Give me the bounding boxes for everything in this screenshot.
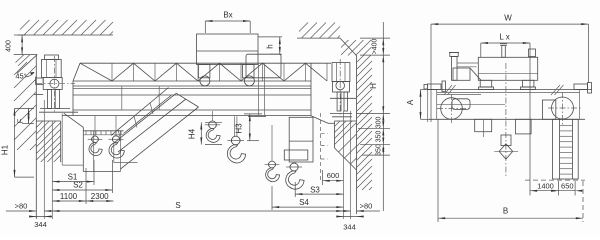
runway rail lines right: [343, 111, 345, 219]
stair railing over diagonals: [111, 88, 169, 136]
left hook big: [113, 136, 120, 143]
svg-text:>80: >80: [360, 202, 373, 211]
right hoist block hanging: [289, 117, 313, 162]
left wall face: [35, 55, 37, 219]
girder right taper: [311, 116, 328, 124]
left crane wheel: [50, 79, 59, 88]
dim H3: [244, 113, 262, 115]
under-girder walkway (oblique): [64, 113, 83, 127]
dim S3: [295, 193, 343, 195]
svg-text:S: S: [175, 201, 180, 210]
right rail web bars: [337, 92, 341, 111]
walkway railing top: [80, 62, 331, 64]
svg-text:W: W: [504, 14, 512, 23]
ev ladder: [559, 119, 561, 179]
center small hook (H4): [212, 111, 214, 121]
dashed clearance outline near right wall: [320, 113, 322, 180]
dim 400 top-left: [14, 34, 26, 36]
ev right buffer: [574, 84, 588, 90]
dim H4: [205, 121, 222, 123]
svg-text:H3: H3: [235, 123, 244, 134]
left wall hatch band: [14, 62, 27, 75]
svg-text:350: 350: [376, 144, 383, 156]
ev hook block: [505, 63, 507, 176]
right wall hatch band: [357, 56, 364, 63]
dim 2300: [86, 200, 114, 202]
ev right girder box: [553, 119, 579, 179]
dim S4: [272, 206, 344, 208]
ev trolley frame deck: [427, 89, 592, 91]
left end carriage post: [45, 55, 59, 60]
svg-text:F: F: [16, 118, 25, 123]
svg-text:S4: S4: [299, 198, 309, 207]
right dim column: >400 / H / 300 / 350 / 350: [382, 22, 384, 38]
right hook crossbeam block: [284, 150, 308, 160]
dim 344 left: [30, 216, 52, 218]
left hook small: [92, 136, 99, 143]
hoist housing right of trolley: [246, 54, 281, 78]
svg-text:650: 650: [561, 181, 574, 190]
svg-text:>400: >400: [372, 39, 379, 55]
svg-text:B: B: [503, 207, 508, 216]
ev left buffer: [428, 84, 442, 90]
ev dashed bottom line: [525, 179, 585, 181]
ev drum pin on top: [502, 46, 506, 58]
ev dim W: [430, 24, 432, 122]
svg-text:344: 344: [343, 223, 356, 232]
right wheel box: [333, 82, 350, 93]
ev dim Lx: [480, 43, 482, 57]
ev right wheel: [542, 100, 555, 119]
svg-text:1100: 1100: [60, 192, 78, 201]
svg-text:400: 400: [6, 40, 13, 52]
right hook small: [269, 161, 276, 168]
trolley wheels: [200, 76, 210, 86]
svg-text:H: H: [369, 83, 378, 89]
ev drum top-right bracket: [529, 49, 536, 57]
dim 1100: [52, 200, 86, 202]
ev hoist drum box: [478, 57, 537, 80]
left corbel (hatched rect): [36, 120, 60, 122]
dim S2: [52, 189, 112, 191]
dim S1: [52, 181, 94, 183]
right crane wheel: [336, 81, 345, 90]
left buffer: [36, 78, 44, 84]
right end carriage post: [332, 63, 350, 82]
dim 344 right: [340, 216, 362, 218]
hoist hanger right of trolley: [248, 115, 266, 117]
right wall corner chamfer: [340, 38, 357, 55]
dim 600: [322, 170, 324, 185]
girder panel stiffeners: [121, 86, 123, 110]
dim >80 right: [357, 210, 381, 212]
svg-text:S2: S2: [73, 181, 83, 190]
center big hook (H3): [234, 116, 236, 136]
ev dim B: [437, 119, 439, 222]
svg-text:>80: >80: [15, 202, 28, 211]
right wall face: [356, 56, 358, 215]
svg-text:A: A: [406, 99, 415, 105]
dim h: [270, 53, 282, 55]
ev hanging box left: [475, 119, 492, 131]
svg-text:350: 350: [376, 131, 383, 143]
svg-text:H4: H4: [188, 128, 197, 139]
dim Bx: [204, 21, 206, 33]
svg-text:h: h: [266, 44, 275, 48]
ceiling right (hatched): [297, 37, 340, 39]
ev deck break marks left: [444, 85, 452, 95]
dim S (span): [52, 210, 343, 212]
svg-text:1400: 1400: [537, 181, 554, 190]
right corbel (hatched, chamfered): [335, 120, 357, 122]
right hooks ropes: [271, 125, 273, 161]
left rail web bars: [48, 90, 52, 109]
ceiling left (hatched): [18, 34, 113, 36]
left hook ropes: [94, 116, 96, 137]
dim F: [15, 107, 35, 109]
walkway oblique diagonals: [114, 93, 177, 143]
walkway rails: [83, 130, 123, 132]
right hook big: [290, 163, 298, 171]
trolley legs: [198, 65, 210, 78]
svg-text:Bx: Bx: [223, 11, 232, 20]
main girder box: [73, 80, 311, 82]
svg-text:2300: 2300: [91, 192, 109, 201]
svg-text:H1: H1: [1, 144, 10, 155]
ev dims 1400 650: [529, 88, 531, 196]
ev dim A: [421, 89, 435, 91]
left wheel box: [43, 78, 62, 90]
svg-text:300: 300: [376, 116, 383, 128]
svg-text:S3: S3: [310, 185, 320, 194]
ev motor group: [449, 52, 459, 54]
ev drum legs and feet: [480, 80, 492, 87]
runway rail lines left: [43, 100, 45, 219]
svg-text:344: 344: [34, 220, 47, 229]
ev hanging box right: [516, 119, 532, 134]
dim >80 left: [6, 210, 36, 212]
ev left wheel: [441, 98, 463, 120]
railing zigzag braces: [80, 63, 327, 81]
trolley (crab) body: [197, 34, 259, 65]
svg-text:L x: L x: [499, 33, 509, 42]
left wall soffit: [14, 54, 38, 56]
dim H1: [14, 108, 16, 177]
svg-text:45°: 45°: [15, 72, 26, 81]
left wall chamfer 45deg: [17, 55, 37, 74]
svg-text:600: 600: [327, 171, 340, 180]
